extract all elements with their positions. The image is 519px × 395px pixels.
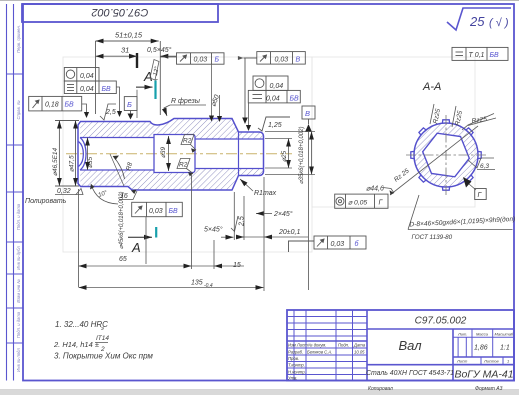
- svg-text:⌀45к6(+0,018+0,002): ⌀45к6(+0,018+0,002): [119, 192, 125, 250]
- svg-text:Инв № подл: Инв № подл: [16, 348, 21, 372]
- svg-text:0,32: 0,32: [57, 188, 71, 195]
- svg-text:ВоГУ МА-41: ВоГУ МА-41: [454, 369, 513, 381]
- svg-text:1: 1: [507, 359, 509, 364]
- svg-text:0,04: 0,04: [80, 73, 94, 80]
- svg-text:Лист: Лист: [456, 358, 468, 363]
- 2,5 rotated roughness flag: [231, 216, 238, 232]
- faint viewport rects: [63, 57, 312, 252]
- svg-text:Б: Б: [215, 57, 220, 64]
- svg-text:R2: R2: [179, 162, 188, 169]
- svg-text:Т.контр.: Т.контр.: [288, 363, 305, 368]
- svg-text:Справ. №: Справ. №: [16, 100, 21, 119]
- G datum bottom right: [463, 177, 472, 188]
- R2 flags: [177, 135, 196, 174]
- section plane strokes: [136, 53, 138, 68]
- left margin rotated tiny texts: [16, 25, 21, 372]
- svg-text:20±0,1: 20±0,1: [278, 229, 300, 236]
- svg-text:2. Н14, h14 ±: 2. Н14, h14 ±: [53, 340, 99, 349]
- svg-text:Пров.: Пров.: [288, 356, 299, 361]
- svg-text:Подп. и дата: Подп. и дата: [16, 311, 21, 338]
- svg-text:0,03: 0,03: [194, 57, 208, 64]
- main verticals: [366, 310, 368, 381]
- svg-text:0,04: 0,04: [270, 83, 284, 90]
- svg-text:0,5×45°: 0,5×45°: [147, 46, 172, 54]
- svg-text:Дата: Дата: [353, 343, 366, 348]
- left part rows: [287, 317, 367, 375]
- svg-text:Т 0,1: Т 0,1: [469, 52, 485, 59]
- 6,3 flag right: [468, 158, 494, 168]
- left part verticals: [294, 310, 353, 381]
- svg-text:БВ: БВ: [290, 96, 300, 103]
- svg-text:10.05: 10.05: [354, 350, 365, 355]
- svg-text:31: 31: [121, 46, 129, 55]
- svg-text:БВ: БВ: [490, 52, 500, 59]
- svg-text:135: 135: [191, 280, 203, 287]
- Rz25 flag top right: [462, 114, 494, 131]
- svg-text:3. Покрытие Хим Окс прм: 3. Покрытие Хим Окс прм: [54, 352, 153, 361]
- Rz25 rotated flags top-left: [430, 104, 456, 127]
- svg-text:2×45°: 2×45°: [273, 210, 293, 218]
- svg-text:Масса: Масса: [476, 331, 489, 336]
- hexagon: [423, 133, 470, 177]
- svg-text:-0,4: -0,4: [204, 283, 213, 289]
- svg-text:5×45°: 5×45°: [204, 226, 223, 234]
- svg-text:№ докум.: № докум.: [308, 343, 326, 348]
- long diagonal leader: [390, 126, 478, 195]
- centerline: [66, 153, 292, 155]
- middle rows: [367, 328, 514, 330]
- shaft outer contour: [78, 119, 264, 191]
- svg-text:R фрезы: R фрезы: [171, 98, 201, 105]
- top right tolerance frame: [452, 47, 508, 60]
- svg-text:Инв № дубл: Инв № дубл: [16, 246, 21, 270]
- outer left thin border: [6, 4, 8, 381]
- svg-text:ГОСТ 1139-80: ГОСТ 1139-80: [412, 234, 453, 241]
- svg-text:⌀39: ⌀39: [160, 146, 167, 158]
- svg-text:Вал: Вал: [398, 338, 422, 353]
- frame5 below shaft: [132, 202, 183, 264]
- svg-text:15: 15: [233, 262, 241, 269]
- svg-text:Н.контр.: Н.контр.: [288, 370, 306, 375]
- frame6 0,03 b: [289, 236, 367, 252]
- svg-text:51±0,15: 51±0,15: [115, 31, 143, 40]
- svg-text:⌀ 0,05: ⌀ 0,05: [348, 200, 367, 207]
- internal chamber: [154, 135, 195, 173]
- svg-text:0,03: 0,03: [331, 241, 345, 248]
- bore lines: [79, 135, 264, 173]
- svg-text:0,03: 0,03: [149, 208, 163, 215]
- svg-text:⌀25: ⌀25: [281, 150, 288, 162]
- svg-text:⌀35к6(+0,018+0,002): ⌀35к6(+0,018+0,002): [299, 127, 305, 185]
- hatching top band: [80, 119, 264, 140]
- svg-text:Изм Лист: Изм Лист: [288, 343, 308, 348]
- dia25 dim: [265, 139, 292, 169]
- svg-text:Взам инв №: Взам инв №: [16, 279, 21, 303]
- svg-text:Сталь 40ХН ГОСТ 4543-71: Сталь 40ХН ГОСТ 4543-71: [366, 370, 454, 377]
- svg-text:Листов: Листов: [483, 358, 499, 363]
- dia35k6 dim: [265, 132, 315, 175]
- svg-text:⌀44,6: ⌀44,6: [366, 186, 384, 193]
- svg-text:65: 65: [119, 256, 127, 263]
- svg-text:Формат А3: Формат А3: [475, 386, 503, 392]
- right part subdivisions: [453, 329, 514, 364]
- frame1 runout 0,03 Б: [160, 53, 224, 64]
- svg-text:0,03: 0,03: [275, 57, 289, 64]
- 65 / 15 / 135 dims: [79, 175, 264, 288]
- svg-text:Беляков С.А.: Беляков С.А.: [307, 350, 332, 355]
- svg-text:⌀47,5: ⌀47,5: [69, 155, 76, 172]
- svg-text:Утв.: Утв.: [288, 376, 298, 381]
- top-right general roughness mark: [447, 8, 511, 30]
- svg-text:В: В: [305, 109, 310, 118]
- svg-text:IT14: IT14: [96, 335, 109, 342]
- svg-text:Лит.: Лит.: [457, 331, 467, 336]
- svg-text:БВ: БВ: [102, 86, 112, 93]
- roughness 1,25 on tube: [258, 117, 290, 131]
- svg-text:С97.05.002: С97.05.002: [92, 6, 149, 18]
- centerlines: [406, 154, 486, 156]
- svg-text:Подп. и дата: Подп. и дата: [16, 203, 21, 230]
- svg-text:0,04: 0,04: [266, 96, 280, 103]
- svg-text:2,5: 2,5: [239, 216, 246, 227]
- step vertical at chamfer: [238, 132, 240, 176]
- svg-text:Б: Б: [127, 100, 132, 109]
- frame2 runout 0,03 В: [244, 52, 306, 119]
- spline bumps: [411, 120, 481, 190]
- svg-text:1,25: 1,25: [268, 122, 282, 129]
- svg-text:⌀35: ⌀35: [87, 156, 94, 168]
- svg-text:э: э: [101, 326, 104, 332]
- svg-text:⌀46,5Е14: ⌀46,5Е14: [52, 147, 59, 176]
- small box near 0,5x45: [211, 65, 213, 117]
- svg-text:А: А: [131, 240, 141, 255]
- svg-text:Разраб.: Разраб.: [288, 350, 303, 355]
- svg-text:БВ: БВ: [65, 102, 75, 109]
- R8 arc label inside bore: [113, 156, 125, 179]
- svg-text:Перв. примен.: Перв. примен.: [16, 25, 21, 53]
- svg-text:1,86: 1,86: [474, 345, 488, 352]
- svg-text:БВ: БВ: [169, 208, 179, 215]
- datum В box right: [302, 106, 315, 124]
- svg-text:А-А: А-А: [422, 81, 441, 93]
- hatched annulus: [414, 123, 478, 187]
- svg-text:25: 25: [469, 14, 485, 29]
- left margin cell lines: [7, 74, 24, 343]
- top-left rotated designation box: [22, 4, 218, 22]
- frame3L two-row left: [64, 68, 119, 113]
- datum Б flag (left, above shaft): [124, 97, 137, 114]
- svg-text:( √ ): ( √ ): [489, 17, 509, 29]
- angle leader bottom-left: [91, 184, 118, 204]
- svg-text:0,04: 0,04: [80, 86, 94, 93]
- svg-text:Полировать: Полировать: [25, 198, 67, 205]
- frame4 single left 0,18: [29, 96, 87, 113]
- svg-text:1:1: 1:1: [500, 345, 510, 352]
- top page edge: [0, 0, 519, 2]
- hatching bottom band: [80, 169, 264, 191]
- svg-text:16: 16: [120, 193, 128, 200]
- svg-text:Масштаб: Масштаб: [495, 331, 514, 336]
- svg-text:Копировал: Копировал: [368, 386, 393, 392]
- outer circle: [414, 123, 478, 187]
- svg-text:С97.05.002: С97.05.002: [415, 316, 467, 327]
- svg-text:0,18: 0,18: [45, 102, 59, 109]
- svg-text:6,3: 6,3: [480, 163, 489, 170]
- svg-text:R1max: R1max: [254, 190, 277, 197]
- frame3R two-row right: [220, 76, 301, 126]
- svg-text:2,5: 2,5: [105, 109, 116, 116]
- section arrows: [136, 86, 153, 88]
- bottom gray strip: [0, 390, 519, 395]
- 12 deg flag: [150, 60, 159, 81]
- svg-text:Подп.: Подп.: [338, 343, 349, 348]
- roughness 2,5 flag top: [100, 104, 116, 120]
- svg-text:В: В: [296, 57, 301, 64]
- small bore: [195, 138, 264, 140]
- spline designation note with underline: [408, 229, 513, 231]
- bore left spherical end: [80, 138, 86, 171]
- svg-text:R2: R2: [183, 138, 192, 145]
